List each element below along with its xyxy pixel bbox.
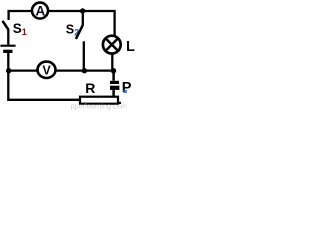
wire left below battery down to bottom corner — [8, 53, 80, 100]
plug key P top bar — [110, 81, 119, 84]
svg-text:L: L — [126, 39, 135, 55]
switch S1 blade — [3, 21, 9, 30]
wire stub right of resistor box — [118, 102, 121, 104]
wire top from ammeter to right corner and down to lamp — [49, 11, 115, 38]
battery cell short plate — [3, 50, 12, 53]
lamp L — [103, 36, 121, 54]
wire S2 lower — [83, 41, 85, 70]
svg-text:P: P — [122, 80, 132, 96]
wire P branch upper — [112, 71, 115, 81]
svg-text:V: V — [42, 63, 51, 77]
wire middle horizontal — [9, 69, 114, 71]
plug key P bottom bar — [110, 86, 119, 90]
svg-text:S: S — [13, 21, 22, 36]
wire S2 upper — [82, 11, 84, 26]
svg-text:pperlearning.com: pperlearning.com — [71, 102, 127, 111]
battery cell long plate — [0, 45, 15, 47]
wire left below S1 — [7, 29, 9, 44]
switch S2 blade — [76, 25, 83, 39]
node junction lamp branch on middle wire — [111, 68, 116, 73]
svg-text:1: 1 — [22, 27, 27, 37]
wire P branch lower — [112, 90, 115, 97]
ammeter U A — [32, 3, 48, 19]
voltmeter U V — [38, 62, 56, 78]
svg-text:A: A — [35, 3, 45, 18]
wire top-left horizontal — [9, 11, 32, 20]
node junction on top wire — [80, 8, 85, 13]
resistor box R — [80, 97, 118, 104]
node left junction of voltmeter wire — [6, 68, 11, 73]
node junction S2 on middle wire — [82, 68, 87, 73]
svg-text:S: S — [66, 23, 74, 37]
svg-text:R: R — [85, 80, 95, 96]
wire below lamp — [111, 53, 113, 70]
